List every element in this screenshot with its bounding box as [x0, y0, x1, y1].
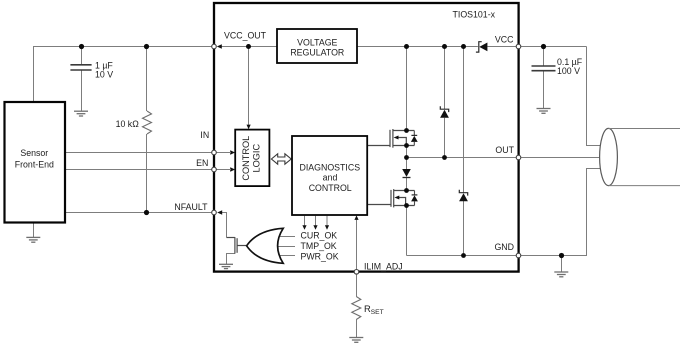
arrow: CUR_OK down arrowhead — [302, 225, 306, 230]
wire: C1 bottom plate to ground — [81, 71, 83, 111]
arrow: into CONTROL LOGIC top — [247, 125, 251, 130]
arrow: VCC_OUT pin arrowhead — [217, 44, 222, 48]
wire: 10k resistor bottom to NFAULT line — [146, 134, 148, 213]
wire: OUT pin to cable connector — [521, 157, 600, 159]
transistor M1 (high-side NMOS) — [368, 129, 415, 148]
pin VCC — [516, 44, 521, 49]
wire: sensor ground stem — [33, 223, 35, 237]
wire: VCC pin to external VCC node — [521, 46, 586, 48]
junction: rail / R1 — [144, 44, 149, 49]
wire: cable top conductor — [609, 128, 680, 130]
svg-text:Front-End: Front-End — [15, 159, 54, 169]
wire: IN from Sensor Front-End to IN pin — [65, 152, 211, 154]
svg-text:IN: IN — [200, 130, 209, 140]
pin ILIM_ADJ — [354, 270, 359, 275]
svg-text:10 V: 10 V — [95, 70, 113, 80]
arrow: IN into CONTROL LOGIC — [230, 150, 235, 154]
wire: CUR_OK arrow shaft from DIAGNOSTICS — [304, 216, 306, 226]
svg-text:OUT: OUT — [495, 145, 514, 155]
wire: series zener to VCC pin — [487, 46, 516, 48]
wire: PWR_OK arrow shaft from DIAGNOSTICS — [326, 216, 328, 226]
svg-text:TIOS101-x: TIOS101-x — [453, 10, 496, 20]
svg-text:CONTROL: CONTROL — [309, 183, 352, 193]
svg-text:DIAGNOSTICS: DIAGNOSTICS — [299, 162, 360, 172]
arrow: NFAULT pin arrowhead — [217, 210, 222, 214]
wire: zener D2 anode down to OUT rail — [444, 118, 446, 158]
junction: R1 / NFAULT line — [144, 210, 149, 215]
wire: cable bottom conductor — [609, 185, 680, 187]
svg-text:10 kΩ: 10 kΩ — [116, 119, 140, 129]
svg-text:Sensor: Sensor — [20, 148, 48, 158]
wire: C1 branch from rail — [81, 47, 83, 65]
cable connector J1 (ellipse) — [600, 128, 618, 185]
arrow: TMP_OK down arrowhead — [313, 225, 317, 230]
junction: M2 drain — [404, 188, 409, 193]
junction: OUT rail / D2 anode — [442, 155, 447, 160]
wire: VCC down to cable connector — [587, 47, 601, 146]
block: CONTROL LOGIC — [235, 130, 269, 187]
junction: M2 source — [404, 203, 409, 208]
arrow: ILIM_ADJ up into DIAGNOSTICS — [354, 215, 358, 220]
wire: M1 source down to OUT rail — [406, 146, 408, 158]
junction: internal rail / M1 drain — [404, 44, 409, 49]
wire: C2 branch from VCC node — [543, 47, 545, 66]
wire: NFAULT pin to M3 drain — [221, 213, 226, 238]
wire: PWR_OK input stub of OR gate — [272, 255, 295, 257]
svg-text:100 V: 100 V — [557, 66, 580, 76]
wire: TMP_OK arrow shaft from DIAGNOSTICS — [315, 216, 317, 226]
zener diode D2 (VCC rail to OUT) — [440, 106, 449, 118]
pin NFAULT — [212, 210, 217, 215]
ground at M3 source — [219, 264, 233, 268]
ground under C1 — [74, 111, 88, 116]
resistor RSET — [352, 297, 361, 320]
bidirectional bus arrow between CONTROL LOGIC and DIAGNOSTICS — [271, 154, 291, 164]
transistor M2 (blocking NMOS) — [368, 189, 415, 207]
wire: blocking diode D4 to M2 drain — [406, 178, 408, 191]
wire: IN pin to arrow — [217, 152, 231, 154]
junction: VCC node / C2 — [541, 44, 546, 49]
svg-text:ILIM_ADJ: ILIM_ADJ — [364, 261, 403, 271]
svg-text:GND: GND — [494, 242, 514, 252]
junction: external GND / ground symbol — [559, 253, 564, 258]
wire: ILIM_ADJ pin up to DIAGNOSTICS — [356, 220, 358, 269]
pin OUT — [516, 155, 521, 160]
ground under C2 — [537, 109, 551, 114]
IC U1 TIOS101-x boundary — [214, 3, 519, 272]
OR gate G1 (fault logic, output to left) — [247, 228, 284, 263]
wire: OUT rail down to blocking diode D4 — [406, 158, 408, 170]
transistor M1 body diode — [411, 131, 418, 146]
svg-text:VCC_OUT: VCC_OUT — [224, 30, 267, 40]
junction: OUT rail / M1 source leg — [404, 155, 409, 160]
wire: clamp zener D3 anode down to GND rail — [463, 201, 465, 256]
wire: VCC_OUT node down to CONTROL LOGIC top — [248, 47, 250, 125]
wire: GND pin to external ground / cable shield — [521, 169, 601, 256]
svg-text:VOLTAGE: VOLTAGE — [297, 38, 337, 48]
resistor R1 10k — [143, 111, 152, 134]
arrow: PWR_OK down arrowhead — [325, 225, 329, 230]
pin VCC_OUT — [212, 44, 217, 49]
junction: M1 drain — [404, 128, 409, 133]
svg-text:EN: EN — [196, 158, 208, 168]
wire: CUR_OK input stub of OR gate — [272, 236, 295, 238]
wire: ILIM_ADJ pin down to RSET — [356, 274, 358, 296]
pin GND — [516, 253, 521, 258]
wire: RSET bottom to ground — [356, 320, 358, 338]
svg-text:CONTROL: CONTROL — [241, 136, 251, 181]
wire: OUT rail to OUT pin — [407, 157, 516, 159]
svg-text:CUR_OK: CUR_OK — [301, 230, 338, 240]
svg-text:NFAULT: NFAULT — [174, 202, 208, 212]
svg-text:LOGIC: LOGIC — [252, 144, 262, 173]
pin EN — [212, 167, 217, 172]
wire: TMP_OK input stub of OR gate — [269, 246, 295, 248]
ground under Sensor Front-End — [26, 237, 40, 242]
arrow: EN into CONTROL LOGIC — [230, 167, 235, 171]
wire: left VCC_OUT rail from Sensor Front-End top to VCC_OUT pin — [34, 47, 212, 103]
capacitor C2 0.1uF 100V — [532, 66, 556, 71]
wire: external ground stem at GND — [561, 256, 563, 272]
wire: VCC_OUT pin to VOLTAGE REGULATOR — [221, 46, 277, 48]
wire: internal rail down to M1 drain — [406, 47, 408, 132]
wire: EN from Sensor Front-End to EN pin — [65, 169, 211, 171]
svg-text:TMP_OK: TMP_OK — [301, 241, 337, 251]
wire: NFAULT from Sensor Front-End to NFAULT pin — [65, 212, 211, 214]
svg-text:PWR_OK: PWR_OK — [301, 251, 339, 261]
transistor M2 body arrow — [394, 196, 399, 200]
block: Sensor Front-End — [5, 102, 66, 223]
junction: rail / C1 — [79, 44, 84, 49]
transistor M3 (NFAULT open-drain NMOS) — [227, 237, 247, 253]
junction: M1 source — [404, 143, 409, 148]
wire: rail down to zener D2 cathode — [444, 47, 446, 110]
wire: VOLTAGE REGULATOR output rail to series zener — [357, 46, 478, 48]
pin IN — [212, 150, 217, 155]
wire: EN pin to arrow — [217, 169, 231, 171]
transistor M2 body diode — [411, 191, 418, 206]
junction: VCC_OUT / CONTROL LOGIC feed — [246, 44, 251, 49]
svg-text:REGULATOR: REGULATOR — [290, 47, 344, 57]
wire: internal GND rail to GND pin — [407, 255, 516, 257]
ground under RSET — [349, 338, 363, 343]
junction: internal rail / D2 — [442, 44, 447, 49]
wire: 10k resistor branch from rail — [146, 47, 148, 112]
junction: internal rail / D3 — [461, 44, 466, 49]
svg-text:and: and — [323, 173, 338, 183]
zener diode D3 (VCC rail to GND clamp) — [459, 190, 468, 202]
ground at external GND node — [554, 272, 568, 277]
diode D4 (OUT to M2 drain, cathode down) — [402, 169, 411, 178]
wire: rail down to clamp zener D3 cathode — [463, 47, 465, 193]
wire: M2 source down to GND rail — [406, 206, 408, 256]
svg-text:VCC: VCC — [495, 34, 514, 44]
block: DIAGNOSTICS and CONTROL — [292, 136, 367, 215]
wire: C2 bottom plate to ground — [543, 71, 545, 108]
capacitor C1 1uF 10V — [70, 65, 91, 70]
block: VOLTAGE REGULATOR — [277, 29, 357, 63]
transistor M1 body arrow — [394, 136, 399, 140]
series zener diode D1 at VCC pin (horizontal, cathode left) — [476, 42, 488, 52]
wire: M3 source to internal ground — [227, 254, 235, 265]
junction: GND rail / D3 anode — [461, 253, 466, 258]
